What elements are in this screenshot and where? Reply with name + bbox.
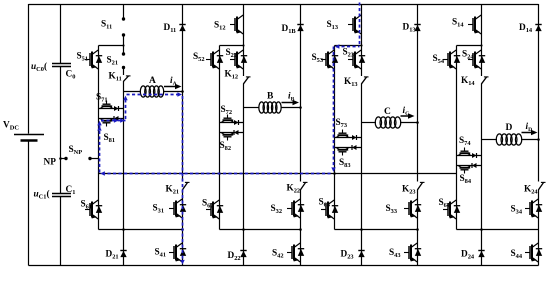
svg-text:D: D [506, 123, 513, 133]
svg-text:C: C [384, 107, 391, 117]
svg-text:NP: NP [44, 158, 57, 168]
svg-text:A: A [149, 76, 156, 86]
svg-text:B: B [267, 92, 274, 102]
